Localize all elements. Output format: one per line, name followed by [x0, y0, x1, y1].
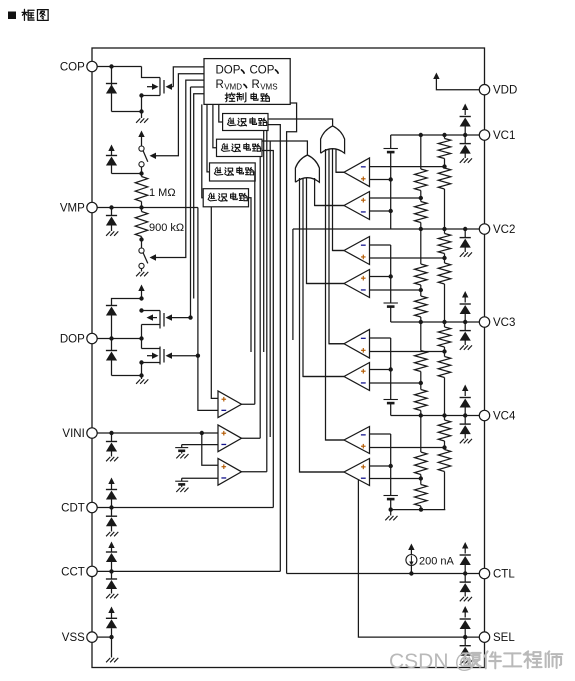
- wire U4 plus to reference column: [370, 276, 391, 278]
- wire delay1 to comparator U11 output: [266, 131, 268, 472]
- wire G1 input2 from VC3 comparator: [329, 149, 344, 344]
- pin VC4: [479, 410, 489, 420]
- wire SEL bus from comparator U8: [358, 480, 479, 637]
- wire CCT net: [97, 570, 280, 572]
- resistor R12: [420, 372, 422, 390]
- wire U1 plus to reference: [370, 179, 391, 181]
- diode D11 above VSS: [111, 612, 113, 618]
- delay circuit box 4 延迟电路: [203, 189, 248, 207]
- pin VDD: [479, 85, 489, 95]
- diode D3 at VMP lower: [111, 208, 113, 216]
- svg-text:VC4: VC4: [493, 411, 516, 423]
- diode D12 above VC1: [464, 109, 466, 115]
- wire G1 input3 from VC2 comparator: [333, 149, 345, 251]
- comparator U6 VC3 overdischarge: [344, 363, 370, 391]
- resistor R18: [444, 441, 446, 450]
- svg-text:VDD: VDD: [493, 85, 517, 97]
- ground COP: [141, 112, 143, 119]
- resistor R2 900 kOhm: [141, 208, 143, 212]
- resistor R16: [420, 475, 422, 485]
- wire control to delay3: [207, 104, 210, 171]
- wire SEL node: [463, 635, 467, 639]
- resistor R14: [438, 357, 451, 378]
- wire U2 plus to divider: [370, 197, 421, 199]
- diode D13 below VC1: [464, 135, 466, 144]
- resistor R3: [420, 135, 422, 169]
- wire bus b: [263, 131, 265, 353]
- diode D19 above CTL: [464, 548, 466, 554]
- pin VINI: [87, 428, 97, 438]
- wire U10 output: [242, 437, 261, 439]
- comparator U4 VC2 overdischarge: [344, 270, 370, 298]
- diode D8 below CDT: [111, 508, 113, 517]
- wire COP net: [97, 66, 141, 68]
- wire M1 gate from control: [173, 67, 204, 87]
- battery B3 reference column: [390, 338, 392, 400]
- battery B4 reference column: [390, 434, 392, 496]
- current source I1 200 nA: [410, 549, 412, 555]
- transistor M3 DOP NMOS: [142, 348, 161, 350]
- resistor R7: [420, 229, 422, 264]
- switch S2 lower: [139, 248, 144, 253]
- delay circuit box 3 延迟电路: [210, 163, 256, 181]
- svg-text:VMS: VMS: [260, 82, 277, 91]
- wire U5 plus to divider: [370, 351, 445, 353]
- wire CDT net: [97, 507, 273, 509]
- comparator U1 VC1 overcharge: [344, 158, 370, 187]
- switch S1 upper: [141, 136, 143, 146]
- wire control to delay1: [219, 104, 223, 122]
- diode D20 below CTL: [464, 574, 466, 583]
- node DOP charge-pump arrow: [141, 290, 143, 299]
- resistor R15: [420, 416, 422, 453]
- or-gate G1 overcharge 4-input: [321, 126, 345, 153]
- svg-text:VC2: VC2: [493, 224, 515, 236]
- transistor M2 DOP PMOS: [142, 310, 161, 312]
- wire delay2 to comparator U10 output: [259, 157, 261, 439]
- wire DOP net: [97, 338, 141, 340]
- wire VC1 net: [391, 134, 480, 136]
- wire VC2 sense to comparator U9: [292, 229, 294, 340]
- pin COP: [87, 61, 97, 71]
- wire bus a: [249, 198, 252, 352]
- resistor R4: [420, 191, 422, 202]
- diode D9 above CCT: [111, 547, 113, 552]
- wire U9 output: [242, 403, 255, 405]
- comparator U9 RVMD: [218, 391, 242, 418]
- diode D6 at VINI: [111, 433, 113, 442]
- pin VMP: [87, 202, 97, 212]
- svg-text:CTL: CTL: [493, 569, 515, 581]
- resistor R5: [444, 135, 446, 139]
- comparator U10 VINI first: [218, 425, 242, 452]
- reference battery B6 for U11: [182, 477, 218, 479]
- svg-text:COP: COP: [250, 65, 275, 77]
- wire VC4 net: [391, 415, 480, 417]
- comparator U5 VC3 overcharge: [344, 330, 370, 359]
- svg-text:DOP: DOP: [216, 65, 241, 77]
- wire control to delay2: [213, 104, 217, 147]
- wire M2 gate: [171, 317, 191, 319]
- node COP source: [139, 93, 143, 97]
- svg-text:VINI: VINI: [62, 428, 84, 440]
- wire U4 minus to divider: [370, 289, 421, 291]
- svg-text:VMP: VMP: [60, 203, 85, 215]
- wire U11 output: [242, 471, 267, 473]
- wire divider bottom: [391, 509, 446, 511]
- wire VSS to ground: [111, 637, 113, 657]
- pin CDT: [87, 502, 97, 512]
- wire U1 minus to divider: [370, 166, 445, 168]
- ground VMP diode: [106, 231, 110, 235]
- pin CCT: [87, 566, 97, 576]
- wire G2 input4 from VC1 comparator: [315, 178, 344, 206]
- pin CTL: [479, 568, 489, 578]
- wire control stub 4: [194, 94, 204, 299]
- comparator U3 VC2 overcharge: [344, 237, 370, 265]
- wire VC3 net: [391, 321, 480, 323]
- resistor R11: [420, 322, 422, 351]
- wire U8 plus to reference column: [370, 465, 391, 467]
- wire VDD internal: [436, 79, 479, 90]
- ground VINI: [106, 457, 110, 461]
- pin VC2: [479, 224, 489, 234]
- battery B1 reference: [390, 135, 392, 149]
- wire delay2 to CDT bus: [262, 151, 273, 508]
- svg-text:VMD: VMD: [224, 82, 242, 91]
- wire U5 minus to reference column: [370, 337, 391, 339]
- resistor R1 1 MOhm: [141, 174, 143, 177]
- comparator U8 VC4 overdischarge: [344, 459, 370, 486]
- diode D17 above VC4: [464, 390, 466, 396]
- or-gate G2 overdischarge 4-input: [295, 155, 319, 182]
- wire G1 output to delay1: [268, 119, 333, 126]
- resistor R6: [438, 168, 451, 189]
- battery B2 reference column: [390, 245, 392, 303]
- comparator U2 VC1 overdischarge: [344, 192, 370, 220]
- resistor R13: [444, 322, 446, 327]
- control circuit box DOP COP RVMD RVMS: [204, 59, 290, 105]
- svg-text:900 kΩ: 900 kΩ: [149, 222, 184, 234]
- ground reference column: [385, 516, 389, 520]
- wire U9 inverting input from VMP: [198, 208, 218, 411]
- diode D16 below VC3: [464, 322, 466, 331]
- diode D14 below VC2: [464, 229, 466, 238]
- svg-text:1 MΩ: 1 MΩ: [149, 187, 176, 199]
- resistor R10: [438, 263, 451, 284]
- wire S2 control: [157, 80, 205, 257]
- wire G1 input4 from VC1 comparator: [336, 149, 344, 172]
- wire G2 input3 from VC2 comparator: [307, 178, 345, 284]
- svg-text:CCT: CCT: [61, 566, 85, 578]
- svg-text:COP: COP: [60, 62, 85, 74]
- svg-text:200 nA: 200 nA: [419, 556, 455, 568]
- ground DOP: [141, 363, 143, 380]
- diode D4 at DOP upper: [112, 299, 142, 306]
- wire G2 output to delay2: [262, 141, 307, 155]
- svg-text:VC3: VC3: [493, 317, 515, 329]
- pin VC1: [479, 130, 489, 140]
- wire U3 plus to divider: [370, 257, 445, 259]
- pin DOP: [87, 333, 97, 343]
- svg-text:CDT: CDT: [61, 503, 85, 515]
- ground VSS: [106, 658, 110, 662]
- wire M3 gate from VMP line: [171, 355, 198, 357]
- ground CDT: [106, 532, 110, 536]
- ground S2: [136, 272, 140, 276]
- ground CCT: [106, 594, 110, 598]
- comparator U7 VC4 overcharge: [344, 427, 370, 454]
- svg-text:SEL: SEL: [493, 632, 515, 644]
- wire delay1 to CCT bus: [268, 125, 280, 572]
- wire U6 plus to reference column: [370, 369, 391, 371]
- pin VC3: [479, 317, 489, 327]
- IC boundary border: [92, 48, 485, 668]
- wire CTL net: [287, 573, 480, 575]
- reference battery B5 for U10: [182, 444, 218, 446]
- wire VSS net: [97, 636, 111, 638]
- diode D21 above SEL: [464, 612, 466, 618]
- svg-text:VC1: VC1: [493, 130, 515, 142]
- resistor R9: [444, 229, 446, 234]
- wire U11 plus input: [202, 433, 218, 465]
- diode D1 at COP: [111, 67, 113, 112]
- diode D22 below SEL: [464, 637, 466, 646]
- wire U2 minus to reference: [370, 210, 391, 212]
- wire control to delay4: [202, 104, 203, 197]
- resistor R8: [420, 285, 422, 296]
- svg-text:R: R: [252, 79, 260, 91]
- title block-diagram heading 框图: [8, 12, 16, 20]
- svg-text:VSS: VSS: [62, 632, 85, 644]
- wire RVMD reference input: [211, 207, 218, 399]
- wire U8 minus to divider: [370, 478, 421, 480]
- wire U7 minus to reference column: [370, 433, 391, 435]
- svg-text:R: R: [216, 79, 224, 91]
- diode D5 at DOP lower: [111, 339, 113, 351]
- diode D2 at VMP upper: [111, 150, 113, 156]
- wire U6 minus to divider: [370, 382, 421, 384]
- diode D15 above VC3: [464, 297, 466, 303]
- wire U3 minus to reference column: [370, 244, 391, 246]
- wire VINI net: [97, 432, 218, 434]
- node below R2: [141, 237, 143, 249]
- diode D10 below CCT: [111, 571, 113, 579]
- wire CTL bus to control: [287, 103, 297, 574]
- transistor M1 COP NMOS: [159, 78, 161, 96]
- wire VMP net: [141, 202, 143, 208]
- pin VSS: [87, 632, 97, 642]
- wire G2 input2 from VC3 comparator: [303, 178, 344, 377]
- resistor R17: [444, 416, 446, 421]
- wire G1 input1 from VC4 comparator: [326, 149, 345, 440]
- comparator U11 VINI second: [218, 458, 242, 485]
- wire S1 control: [157, 74, 205, 156]
- diode D18 below VC4: [464, 416, 466, 425]
- diode D7 above CDT: [111, 483, 113, 490]
- wire U7 plus to divider: [370, 447, 445, 449]
- delay circuit box 2 延迟电路: [217, 139, 263, 156]
- wire bus c: [269, 141, 271, 437]
- wire delay3 to comparator U9 output: [254, 172, 256, 404]
- wire G2 input1 from VC4 comparator: [300, 178, 345, 472]
- wire VC2 net: [293, 228, 479, 230]
- pin SEL: [479, 632, 489, 642]
- svg-text:DOP: DOP: [60, 334, 85, 346]
- delay circuit box 1 延迟电路: [223, 114, 268, 131]
